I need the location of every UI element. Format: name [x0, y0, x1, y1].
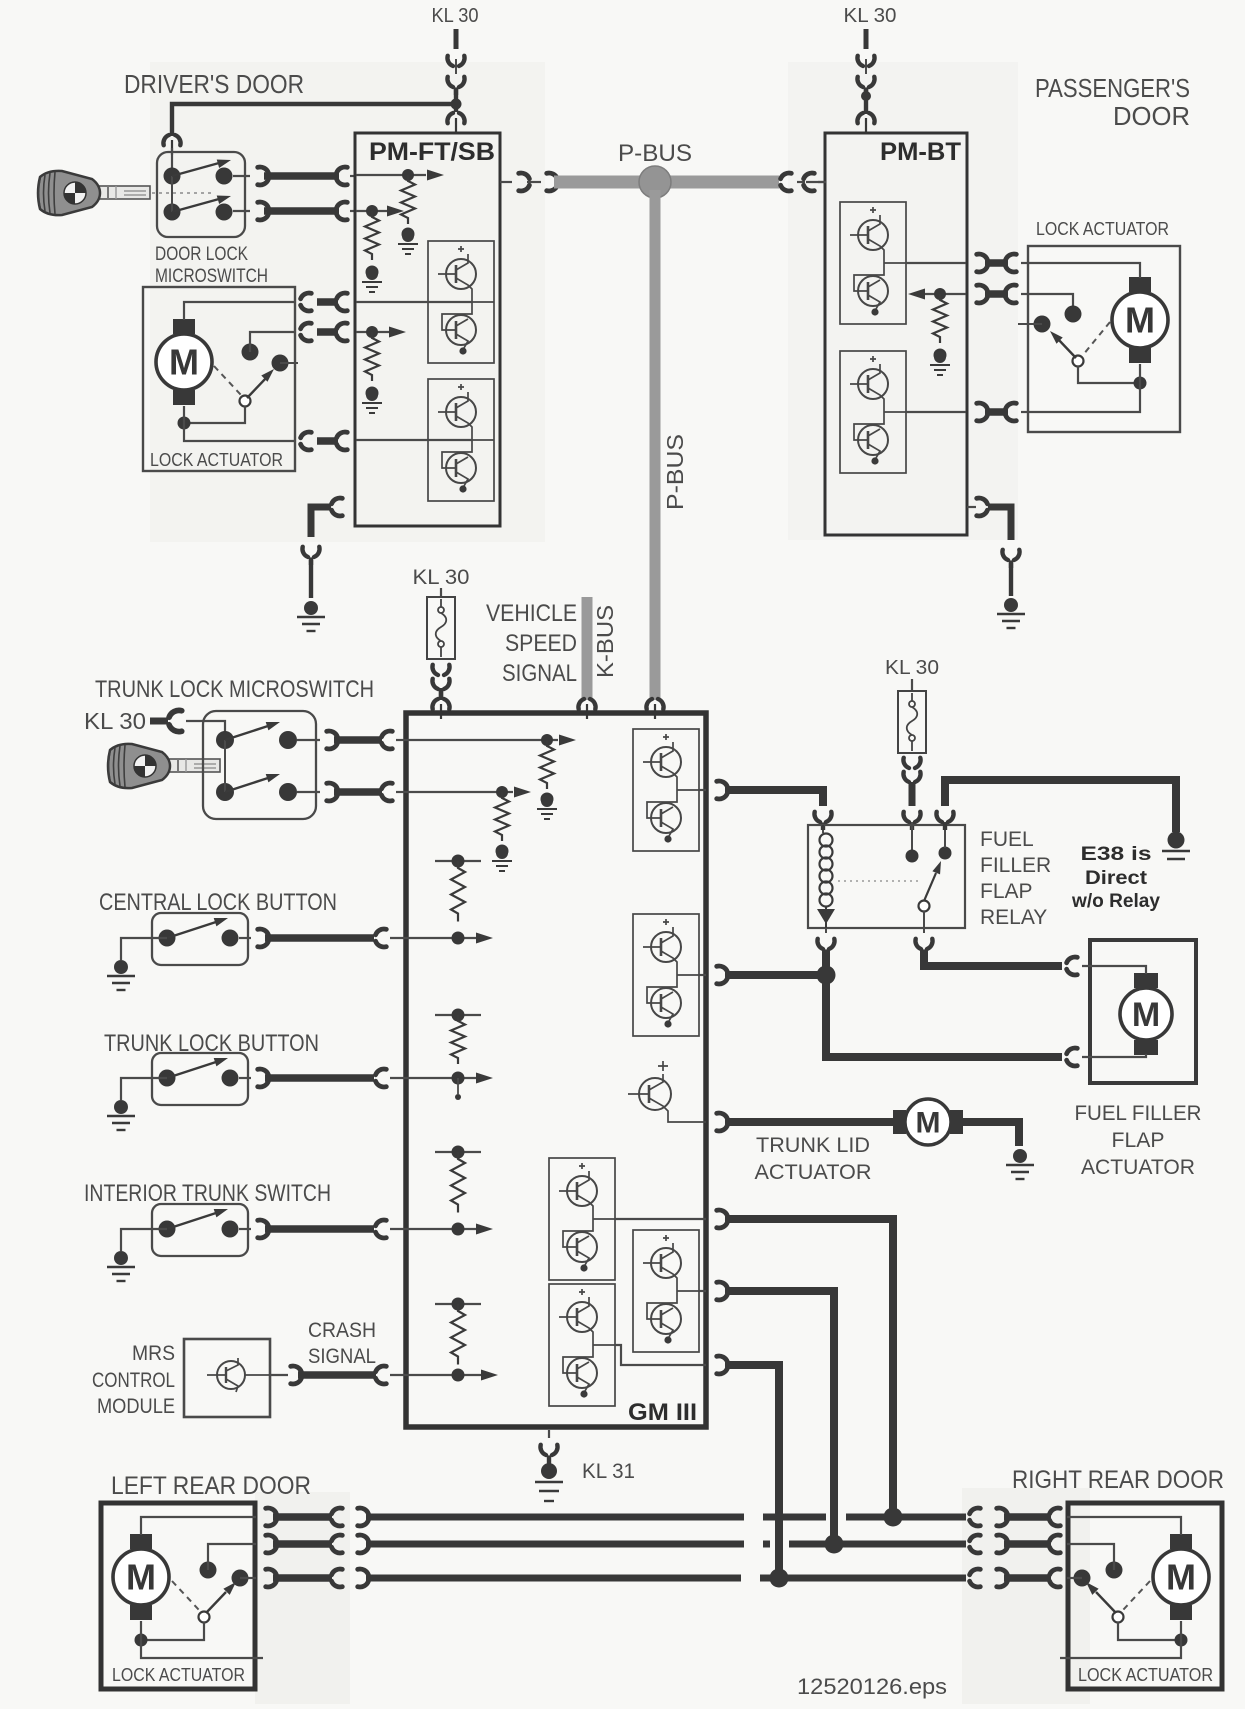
connector X1 pair on KL30 feed [447, 56, 464, 95]
node R5 bottom on row [452, 1223, 465, 1236]
node R2 bottom [496, 845, 509, 858]
switch box trunk lock button [152, 1053, 248, 1105]
wire KL30 vertical into PM-BT [864, 88, 868, 114]
resistor R3 [451, 861, 465, 922]
svg-text:FUEL FILLER: FUEL FILLER [1075, 1102, 1202, 1125]
wire output row y302 to pair U1a [356, 301, 472, 303]
node bus1 junction [884, 1508, 903, 1527]
wire junction down and right to fuel flap actuator lower input [826, 975, 1062, 1057]
resistor R4 [451, 1015, 465, 1064]
switch arm with arrow to left contact [1047, 328, 1076, 358]
wire input row y332 inside with arrow [356, 327, 406, 338]
wire GM III out y1291 to bus 2 [717, 1282, 834, 1544]
wire between TL and BL contacts (trunk) [224, 740, 226, 792]
svg-text:VEHICLE: VEHICLE [486, 600, 577, 627]
module PM-BT box [825, 133, 967, 535]
node M5 bottom junction [135, 1634, 148, 1647]
svg-text:12520126.eps: 12520126.eps [797, 1674, 947, 1699]
motor M1 driver's lock actuator [156, 319, 212, 405]
right rear door box [1068, 1503, 1222, 1689]
resistor RA [401, 175, 415, 224]
wire stub to fuse F1 [440, 588, 442, 598]
svg-text:LEFT REAR DOOR: LEFT REAR DOOR [111, 1472, 311, 1500]
svg-text:DOOR: DOOR [1113, 101, 1190, 131]
node M2 bottom junction [1134, 377, 1147, 390]
connector below relay coil [817, 928, 834, 957]
svg-text:PASSENGER'S: PASSENGER'S [1035, 73, 1190, 103]
ground G6 [107, 1100, 135, 1130]
switch arm lower (lock) [172, 192, 232, 212]
switch pivot (right rear) [1113, 1612, 1124, 1623]
node pull-up top R6 with crossbar [435, 1298, 481, 1311]
wire GM III trunk button row internal with arrow [407, 1073, 493, 1084]
svg-text:ACTUATOR: ACTUATOR [755, 1161, 872, 1184]
transistor pair U3a (fuel flap relay drive) [633, 729, 699, 851]
ground G2 (passenger door module) [997, 598, 1025, 628]
left rear door box [101, 1503, 255, 1689]
motor M5 left rear lock actuator [113, 1534, 169, 1620]
wire KL31 stub below GM III [548, 1430, 550, 1438]
wire actuator row y441 connectors to PM-FT/SB [301, 432, 348, 450]
wire down to ground G2 [1009, 563, 1013, 596]
wire U3e output jog to edge [615, 1345, 706, 1365]
connector arch into PM-FT/SB top (KL30) [447, 113, 464, 133]
svg-text:FUEL: FUEL [980, 828, 1034, 851]
wire central lock button to GM III [239, 929, 407, 947]
contact dot right (central lock) [222, 930, 239, 947]
ground G1 (driver door module) [297, 601, 325, 631]
svg-text:SIGNAL: SIGNAL [308, 1345, 376, 1368]
wire F2 to relay top [909, 782, 916, 806]
svg-text:LOCK ACTUATOR: LOCK ACTUATOR [1036, 219, 1169, 239]
svg-text:ACTUATOR: ACTUATOR [1081, 1156, 1195, 1179]
ground below RC [362, 389, 382, 413]
fuel filler flap actuator box [1090, 940, 1196, 1083]
transistor Q7 (crash output) [207, 1358, 270, 1392]
connector below relay switched output [915, 911, 932, 957]
transistor pair U1b (lower output stage) [428, 379, 494, 501]
wire into microswitch and down to TL contact [186, 721, 225, 740]
svg-text:LOCK ACTUATOR: LOCK ACTUATOR [112, 1665, 245, 1685]
node RA bottom [402, 228, 415, 241]
transistor pair U3d (rear door drive 2) [633, 1230, 699, 1352]
wire bus2 right connectors into right door [970, 1535, 1061, 1553]
wire M1 bottom lead [183, 406, 185, 423]
svg-text:GM III: GM III [628, 1399, 697, 1426]
wire input row1 inside PM-FT/SB with arrow [356, 170, 444, 181]
switch arm upper (unlock) [172, 156, 232, 176]
wire trunk row1 to GM III [297, 731, 407, 749]
contact dot left (interior trunk) [159, 1221, 176, 1238]
transistor Q3 (trunk lid actuator drive) [628, 1061, 706, 1122]
wire pivot down to bottom node [1078, 366, 1140, 383]
passenger lock actuator box [1028, 246, 1180, 432]
node junction row y332 / resistor RC [366, 326, 378, 338]
wire GM III out y975 thick to junction [717, 966, 826, 984]
resistor RC [365, 332, 379, 381]
wire GM III out y1365 to bus 3 [717, 1356, 779, 1578]
motor M4 fuel filler flap [1120, 973, 1172, 1055]
contact dot BL [164, 204, 181, 221]
resistor RD [933, 294, 947, 343]
node R4 bottom on row [452, 1072, 465, 1085]
bus 2 (lock line) [366, 1541, 966, 1548]
svg-text:PM-BT: PM-BT [880, 138, 961, 166]
svg-text:CRASH: CRASH [308, 1319, 376, 1342]
wire KL30 stub to connector [150, 718, 168, 725]
wire row y263 to M2 top [1029, 263, 1140, 278]
switch box door lock microswitch [157, 152, 245, 237]
relay pivot (open circle) [919, 901, 930, 912]
transistor pair U3b (fuel flap actuator drive) [633, 914, 699, 1036]
wire GM III out y1219 to bus 1 [717, 1210, 893, 1517]
contact dot left (central lock) [159, 930, 176, 947]
node junction row2 / resistor RB [366, 205, 378, 217]
svg-text:LOCK ACTUATOR: LOCK ACTUATOR [1078, 1665, 1213, 1685]
svg-text:KL 31: KL 31 [582, 1460, 635, 1483]
bus K-BUS vertical (gray) [582, 597, 593, 700]
connector into relay common [903, 812, 920, 830]
wire stub to fuse F2 [911, 679, 913, 692]
node bus2 junction [825, 1535, 844, 1554]
wire bottom node stub out of box (left rear) [141, 1640, 263, 1658]
wire P-BUS input stub inside PM-BT [806, 181, 826, 183]
connector on trunk KL30 feed [169, 710, 182, 731]
node RC bottom [366, 387, 379, 400]
ground G9 (fuel flap circuit) [1162, 832, 1190, 860]
contact dot upper (passenger switch) [1065, 306, 1082, 323]
node RD bottom [934, 349, 947, 362]
wire M3 right to ground G10 [963, 1122, 1019, 1146]
switch pivot (open circle) [240, 396, 251, 407]
module MRS control module box [184, 1339, 270, 1417]
wire bottom node to row y412 out [1029, 383, 1140, 412]
wire stub from right contact to box edge [280, 362, 298, 364]
wire down to ground G1 [309, 560, 313, 598]
connector on passenger ground branch [1002, 550, 1019, 568]
node row2 / resistor R2 [496, 786, 508, 798]
node P-BUS junction (gray circle) [639, 166, 671, 198]
svg-text:KL 30: KL 30 [885, 657, 939, 679]
switch box central lock button [152, 913, 248, 965]
motor M3 trunk lid actuator [893, 1099, 963, 1145]
ground G8 KL31 [535, 1463, 563, 1501]
wire GM III out y1122 to trunk lid motor [717, 1113, 893, 1131]
contact dot left (passenger switch) [1034, 316, 1051, 333]
wire upper input to M4 top [1082, 966, 1146, 974]
connector X2 pair on passenger KL30 feed [857, 56, 874, 95]
wire relay switched output to fuel flap actuator upper input [924, 950, 1062, 966]
wire GM III crash row internal with arrow [407, 1370, 498, 1381]
wire M1 top to row y302 [184, 302, 296, 320]
svg-text:MICROSWITCH: MICROSWITCH [155, 266, 268, 287]
wire M5 bottom lead [140, 1621, 142, 1640]
wire relay contact up and right to ground G9 [945, 780, 1176, 832]
wire GM III interior trunk row internal with arrow [407, 1224, 493, 1235]
motor M6 right rear lock actuator [1153, 1534, 1209, 1620]
node junction row1 / resistor RA [402, 169, 414, 181]
ground below R2 [492, 847, 512, 871]
wire bus1 right connectors into right door [970, 1508, 1061, 1526]
wire PM-BT output row y412 connectors to actuator [977, 403, 1029, 421]
wire input row2 inside PM-FT/SB with arrow [356, 206, 404, 217]
motor M2 passenger lock actuator [1112, 277, 1168, 363]
transistor pair U3c (rear door drive 1) [549, 1158, 615, 1280]
resistor R5 [451, 1152, 465, 1213]
node junction row y294 / resistor RD [934, 288, 946, 300]
wire bus3 left door connector [266, 1569, 369, 1587]
svg-text:P-BUS: P-BUS [618, 140, 692, 167]
relay box fuel filler flap relay [808, 825, 965, 928]
transistor pair U1a (upper output stage) [428, 241, 494, 363]
wire U2a output to right edge [906, 262, 966, 264]
wire lower input to M4 bottom [1082, 1054, 1146, 1057]
wire bus3 right connectors into right door [970, 1569, 1061, 1587]
wire GM III row1 internal with arrow [407, 735, 576, 746]
node row1 / resistor R1 [541, 734, 553, 746]
node pull-up top R3 with crossbar [435, 855, 481, 868]
wire pivot down to bottom node (left rear) [141, 1622, 204, 1640]
dashed mechanical link M6 to switch [1123, 1581, 1150, 1610]
wire left contact to ground G5 [121, 938, 167, 960]
wire U2b output to right edge [906, 411, 966, 413]
connector arch K-BUS into GM III [578, 699, 595, 719]
resistor R2 [495, 792, 509, 841]
wire bus2 left door connector [266, 1535, 369, 1553]
wire M6 top to row1 [1067, 1517, 1181, 1535]
connector arch P-BUS into GM III [646, 699, 663, 719]
switch arm with arrow (right rear) [1083, 1579, 1116, 1613]
wire U3c output to edge [615, 1218, 706, 1220]
dotted mechanical link coil to arm [838, 880, 918, 882]
wire KL30 stub down from label [454, 29, 459, 49]
node R3 bottom on row [452, 932, 465, 945]
resistor R6 [451, 1304, 465, 1365]
svg-text:CONTROL: CONTROL [92, 1369, 175, 1392]
svg-text:KL 30: KL 30 [413, 566, 470, 589]
relay common post [906, 822, 919, 863]
wire U3b output to edge [699, 974, 706, 976]
transistor pair U2b (lower output stage) [840, 351, 906, 473]
svg-text:KL 30: KL 30 [432, 5, 479, 27]
node pull-up top R5 with crossbar [435, 1146, 481, 1159]
wire left contact to ground G6 [121, 1078, 167, 1100]
contact dot right (interior trunk) [222, 1221, 239, 1238]
svg-text:FLAP: FLAP [1112, 1129, 1165, 1152]
wire KL30 stub [864, 29, 869, 49]
node RB bottom [366, 266, 379, 279]
key S1 (driver's door key) [38, 171, 150, 215]
svg-text:w/o Relay: w/o Relay [1071, 890, 1160, 912]
connector pair below F1 [432, 665, 449, 697]
wire PM-FT/SB P-BUS output connectors [500, 173, 557, 191]
switch box interior trunk switch [152, 1204, 248, 1256]
wire trunk row2 to GM III [297, 783, 407, 801]
wire right contact to row3 [240, 1577, 256, 1579]
connector arch into microswitch top [163, 135, 180, 155]
svg-text:MRS: MRS [132, 1342, 175, 1365]
relay coil L1 [820, 825, 833, 907]
svg-text:KL 30: KL 30 [844, 5, 897, 27]
wire PM-BT input row y294 connectors from actuator [977, 285, 1029, 303]
node R1 bottom [541, 793, 554, 806]
wire stem into microswitch box [171, 148, 173, 176]
wire dashed key mechanical link [152, 192, 212, 194]
wire PM-BT bottom ground branch [967, 498, 1011, 540]
node junction KL30 / driver's door branch [451, 99, 462, 110]
connector arch KL30 into GM III [432, 699, 449, 719]
connector arch into PM-BT top [857, 113, 874, 133]
svg-text:MODULE: MODULE [97, 1395, 175, 1418]
wire relay coil return to junction node [822, 950, 830, 972]
connector into relay coil top [814, 812, 831, 830]
wire microswitch row1 to PM-FT/SB [233, 167, 356, 185]
ground below RD [930, 351, 950, 375]
svg-text:DOOR LOCK: DOOR LOCK [155, 244, 248, 265]
wire microswitch row2 to PM-FT/SB [233, 202, 356, 220]
svg-text:Direct: Direct [1085, 867, 1148, 889]
ground G10 (trunk lid) [1006, 1149, 1034, 1179]
wire M6 bottom lead [1180, 1621, 1182, 1640]
dashed mechanical link M1 to switch [214, 366, 241, 395]
wire row y294 to upper contact [1029, 294, 1073, 307]
ground below RB [362, 268, 382, 292]
wire into GM III top [439, 688, 443, 700]
wire U3d output to edge [699, 1290, 706, 1292]
bus 1 (unlock line) [366, 1514, 966, 1521]
switch arm lower (trunk lock) [225, 770, 281, 792]
wire actuator row y332 connectors to PM-FT/SB [301, 323, 348, 341]
resistor RB [365, 211, 379, 260]
switch pivot (open circle) [1073, 356, 1084, 367]
connector into actuator upper input [1067, 957, 1078, 975]
dashed mechanical link M2 to switch [1083, 322, 1110, 355]
contact dot upper (right rear switch) [1106, 1562, 1123, 1579]
stub below trunk button row node [455, 1078, 461, 1100]
node on passenger KL30 feed [861, 91, 871, 101]
wire left contact to row3 [1067, 1577, 1082, 1579]
contact dot upper (actuator switch) [242, 344, 259, 361]
wire KL30 vertical into node [454, 88, 458, 112]
svg-text:DRIVER'S DOOR: DRIVER'S DOOR [124, 69, 304, 99]
contact dot TL (trunk) [216, 731, 234, 749]
contact dot right (left rear switch) [232, 1570, 249, 1587]
svg-text:FLAP: FLAP [980, 880, 1033, 903]
svg-text:K-BUS: K-BUS [592, 605, 618, 678]
bus 3 (status line) [366, 1575, 966, 1582]
svg-text:RELAY: RELAY [980, 906, 1047, 929]
connector pair below F2 [903, 758, 920, 790]
switch arm (interior trunk) [167, 1205, 229, 1229]
wire stub from left contact past box edge [1018, 323, 1042, 325]
relay fixed contact [939, 822, 952, 860]
svg-text:PM-FT/SB: PM-FT/SB [369, 138, 495, 166]
node M1 bottom junction [178, 417, 191, 430]
wire branch to door lock microswitch (horizontal y104 and corner down) [172, 104, 456, 136]
wire output row y440 to pair U1b [356, 439, 472, 441]
fuse F1 (KL30 to GM III) [427, 597, 455, 659]
connector on KL31 lead [540, 1445, 557, 1463]
ground G7 [107, 1251, 135, 1281]
wire M2 bottom lead [1139, 364, 1141, 383]
connector above relay fixed contact [936, 812, 953, 830]
wire GM III row2 internal with arrow [407, 787, 531, 798]
svg-text:LOCK ACTUATOR: LOCK ACTUATOR [150, 450, 283, 470]
contact dot right (actuator switch) [272, 355, 289, 372]
contact dot BR [216, 204, 233, 221]
wire upper contact to row2 [208, 1544, 256, 1570]
wire P-BUS to PM-BT connectors [781, 173, 826, 191]
contact dot right (trunk button) [222, 1070, 239, 1087]
wire pivot down to bottom node [184, 406, 245, 423]
switch arm (trunk button) [167, 1054, 229, 1078]
wire PM-BT output row y263 connectors to actuator [977, 254, 1029, 272]
ground below R1 [537, 795, 557, 819]
fuse F2 (KL30 to relay) [898, 691, 926, 753]
key S2 (trunk key) [108, 744, 220, 788]
contact dot BR (trunk) [279, 783, 297, 801]
svg-text:P-BUS: P-BUS [662, 434, 688, 510]
node junction fuel flap feed [817, 966, 836, 985]
connector on ground branch [302, 547, 319, 565]
wire input row y294 with left arrow [908, 289, 966, 300]
wire between TL and BL contacts [171, 176, 173, 212]
resistor R1 [540, 740, 554, 789]
svg-text:RIGHT REAR DOOR: RIGHT REAR DOOR [1012, 1466, 1224, 1494]
module GM III box [406, 713, 706, 1427]
svg-text:SPEED: SPEED [505, 630, 577, 657]
connector into actuator lower input [1067, 1048, 1078, 1066]
wire bottom node to row y441 out [184, 423, 296, 441]
switch pivot (left rear) [199, 1612, 210, 1623]
driver's lock actuator box [143, 287, 295, 471]
node bus3 junction [770, 1569, 789, 1588]
svg-text:FILLER: FILLER [980, 854, 1051, 877]
transistor pair U3e (rear door drive 3) [549, 1284, 615, 1406]
wire pivot down to bottom node (right rear) [1118, 1622, 1181, 1640]
svg-text:SIGNAL: SIGNAL [502, 660, 577, 687]
svg-text:E38 is: E38 is [1081, 843, 1152, 865]
contact dot left (right rear switch) [1074, 1570, 1091, 1587]
switch arm with arrow (left rear) [206, 1579, 239, 1613]
svg-text:TRUNK LOCK MICROSWITCH: TRUNK LOCK MICROSWITCH [95, 676, 374, 703]
wire left contact to ground G7 [121, 1229, 167, 1251]
wire M5 top to row1 [141, 1517, 256, 1535]
wire bus1 left door connector [266, 1508, 369, 1526]
wire PM-FT/SB bottom-left ground branch [311, 498, 342, 537]
wire KL31 to ground dot [547, 1458, 551, 1464]
svg-text:TRUNK LID: TRUNK LID [756, 1134, 870, 1157]
contact dot BL (trunk) [216, 783, 234, 801]
bus P-BUS vertical (gray) [650, 190, 661, 700]
wire GM III central lock row internal with arrow [407, 933, 493, 944]
contact dot left (trunk button) [159, 1070, 176, 1087]
wire GM III out y790 to relay coil [717, 781, 823, 806]
switch arm (central lock) [167, 914, 229, 938]
node R6 bottom on row [452, 1369, 465, 1382]
wire bottom node stub out of box (right rear) [1060, 1640, 1181, 1658]
dashed mechanical link M5 to switch [172, 1581, 199, 1610]
wire trunk lock button to GM III [239, 1069, 407, 1087]
diode D1 below coil [817, 906, 835, 928]
wire U3a output to edge [699, 789, 706, 791]
transistor pair U2a (upper output stage) [840, 202, 906, 324]
wire actuator row y302 connectors to PM-FT/SB [301, 293, 348, 311]
contact dot TR (trunk) [279, 731, 297, 749]
bus P-BUS horizontal (gray) [554, 176, 779, 189]
contact dot TR [216, 168, 233, 185]
switch arm upper (trunk unlock) [225, 718, 281, 740]
